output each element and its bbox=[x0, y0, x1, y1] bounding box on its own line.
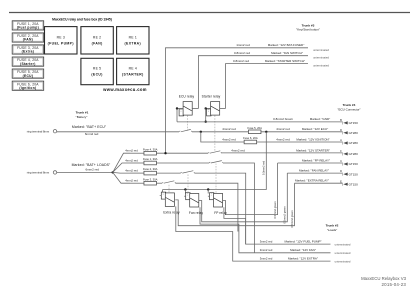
svg-text:Marked: "STARTER SWITCH": Marked: "STARTER SWITCH" bbox=[265, 59, 305, 63]
svg-text:Marked: "12V FUEL PUMP": Marked: "12V FUEL PUMP" bbox=[284, 240, 321, 244]
wire into fuse F4 30A bbox=[130, 152, 144, 154]
relay module RE 4 (STARTER) bbox=[117, 58, 149, 84]
wire ECU relay coil to GND rail bbox=[176, 109, 178, 122]
svg-text:RE 2: RE 2 bbox=[93, 36, 101, 40]
svg-text:(FUEL PUMP): (FUEL PUMP) bbox=[48, 41, 74, 45]
svg-text:E: E bbox=[340, 179, 342, 183]
fuse box F5 (ECU) bbox=[12, 69, 44, 78]
svg-text:Marked: "BAT+ ECU": Marked: "BAT+ ECU" bbox=[72, 125, 107, 129]
fuse F3 30A bbox=[143, 177, 158, 185]
wire ECU relay right pin bbox=[192, 108, 198, 110]
wire FP feed after fuse1 bbox=[157, 162, 210, 164]
svg-text:RE 3: RE 3 bbox=[57, 36, 65, 40]
contact switch of FP relay bbox=[209, 161, 223, 163]
fuse box F2 (FAN) bbox=[12, 33, 44, 42]
svg-text:4mm2 red: 4mm2 red bbox=[222, 127, 236, 131]
svg-text:4mm2 red: 4mm2 red bbox=[125, 158, 138, 162]
svg-text:unterminated: unterminated bbox=[335, 242, 351, 246]
svg-text:4mm2 red: 4mm2 red bbox=[222, 137, 236, 141]
svg-text:Fuse 1, 30A: Fuse 1, 30A bbox=[143, 157, 158, 161]
svg-text:GT150: GT150 bbox=[349, 182, 359, 186]
svg-text:Marked: "IGN SWITCH": Marked: "IGN SWITCH" bbox=[271, 51, 303, 55]
contact switch of Extra relay bbox=[162, 181, 176, 183]
fuse F6 20A bbox=[243, 136, 258, 144]
svg-text:(Ignition): (Ignition) bbox=[19, 86, 36, 90]
svg-text:D: D bbox=[340, 169, 342, 173]
wire into fuse F1 30A bbox=[130, 162, 144, 164]
svg-text:GT150: GT150 bbox=[349, 162, 359, 166]
svg-text:Marked: "12V IGNITION": Marked: "12V IGNITION" bbox=[296, 137, 329, 141]
wire Extra relay control hook bbox=[175, 183, 294, 226]
wire starter relay right pin bbox=[220, 108, 226, 110]
dashed link Extra relay to contact bbox=[168, 184, 170, 192]
wire ECU relay left pin bbox=[177, 108, 183, 110]
svg-text:0.5mm2 green: 0.5mm2 green bbox=[290, 210, 294, 228]
wire FAN feed after fuse2 bbox=[157, 172, 181, 174]
wire branch to fuse2 row bbox=[113, 171, 130, 174]
wire Fan relay output to 12V FAN bbox=[200, 207, 331, 253]
dashed link Fan relay to contact bbox=[187, 174, 189, 193]
contact switch of Fan relay bbox=[181, 171, 195, 173]
fuse box F3 (Extra) bbox=[12, 45, 44, 54]
svg-text:A: A bbox=[340, 138, 342, 142]
fuse F2 30A bbox=[143, 167, 158, 175]
wire 12V ECU through fuse to connector bbox=[192, 131, 342, 133]
svg-text:4mm2 red: 4mm2 red bbox=[231, 148, 245, 152]
svg-text:4mm2 red: 4mm2 red bbox=[125, 169, 138, 173]
junction coil bus FP bbox=[207, 188, 209, 190]
svg-text:(ECU): (ECU) bbox=[23, 74, 34, 78]
svg-text:3mm2 red: 3mm2 red bbox=[260, 240, 273, 244]
connector pin E GT150 (EXTRA RELAY) bbox=[340, 179, 358, 186]
connector pin D GT150 (FAN RELAY) bbox=[340, 169, 358, 176]
svg-text:ECU relay: ECU relay bbox=[179, 94, 195, 98]
svg-text:1mm2 red: 1mm2 red bbox=[236, 43, 250, 47]
svg-text:Marked: "FP RELAY": Marked: "FP RELAY" bbox=[302, 158, 330, 162]
wire into fuse F3 30A bbox=[130, 182, 144, 184]
wire GND rail to connector bbox=[177, 121, 342, 123]
svg-text:ring terminal 8mm: ring terminal 8mm bbox=[27, 129, 50, 133]
svg-text:Fan relay: Fan relay bbox=[189, 211, 203, 215]
wire branch to fuse4 row bbox=[113, 153, 130, 172]
svg-text:Marked: "FAN RELAY": Marked: "FAN RELAY" bbox=[299, 168, 329, 172]
svg-text:D: D bbox=[340, 128, 342, 132]
relay K1 ECU relay symbol bbox=[179, 102, 192, 116]
junction ECU relay left pin bbox=[176, 107, 178, 109]
svg-text:4mm2 red: 4mm2 red bbox=[276, 137, 290, 141]
wire FP RELAY coil control row bbox=[278, 162, 343, 164]
svg-text:3mm2 red: 3mm2 red bbox=[260, 248, 273, 252]
fuse F4 30A bbox=[143, 147, 158, 155]
svg-text:C: C bbox=[340, 159, 342, 163]
ring terminal lug (BAT+ LOADS) bbox=[53, 171, 56, 174]
svg-text:(FAN): (FAN) bbox=[23, 38, 33, 42]
wire coil bus drop to Extra relay bbox=[162, 190, 164, 193]
fuse box F6 (Ignition) bbox=[12, 81, 44, 90]
wire Extra contact output down bbox=[176, 183, 238, 231]
svg-text:"Battery": "Battery" bbox=[76, 115, 88, 119]
svg-text:0.5mm2 red: 0.5mm2 red bbox=[261, 160, 265, 175]
svg-text:"Loads": "Loads" bbox=[327, 228, 337, 232]
svg-text:Marked: "12V EXTRA": Marked: "12V EXTRA" bbox=[288, 257, 318, 261]
wire coil bus drop to FP relay bbox=[207, 190, 209, 194]
junction GND rail bbox=[205, 121, 207, 123]
svg-text:0.5mm2 green: 0.5mm2 green bbox=[273, 201, 277, 219]
svg-text:"Key/Start button": "Key/Start button" bbox=[296, 28, 320, 32]
svg-text:Marked: "EXTRA RELAY": Marked: "EXTRA RELAY" bbox=[295, 179, 329, 183]
relay K3 Extra relay symbol bbox=[160, 192, 175, 206]
dashed link ECU relay to contact bbox=[187, 115, 189, 130]
wire STARTER SWITCH from starter relay up and right bbox=[226, 64, 309, 109]
svg-text:Fuse 5, 20A: Fuse 5, 20A bbox=[247, 126, 262, 130]
svg-text:6mm2 red: 6mm2 red bbox=[85, 132, 99, 136]
svg-text:(ECU): (ECU) bbox=[91, 73, 102, 77]
wire starter relay left pin bbox=[206, 108, 211, 110]
svg-text:B: B bbox=[340, 118, 342, 122]
ring terminal lug (BAT+ ECU) bbox=[53, 130, 56, 133]
wire coil feed bus from 12V ECU bbox=[163, 132, 267, 190]
wire branch to fuse1 row bbox=[113, 163, 130, 172]
connector pin A GT280 (12V IGNITION) bbox=[340, 138, 358, 145]
wire 12V BAT-FUSED from bus up and right bbox=[166, 48, 309, 153]
svg-text:Fuse 2, 30A: Fuse 2, 30A bbox=[143, 167, 158, 171]
svg-text:Marked: "12V FAN": Marked: "12V FAN" bbox=[290, 248, 316, 252]
junction BAT+ LOADS fan-out bbox=[112, 171, 114, 173]
svg-text:RE 4: RE 4 bbox=[129, 67, 137, 71]
contact switch of starter relay bbox=[208, 151, 222, 153]
svg-text:Extra relay: Extra relay bbox=[163, 210, 180, 214]
svg-text:0.8mm2 brown: 0.8mm2 brown bbox=[273, 117, 293, 121]
svg-text:4mm2 red: 4mm2 red bbox=[276, 127, 290, 131]
svg-text:GT280: GT280 bbox=[349, 131, 359, 135]
junction coil bus Fan bbox=[184, 188, 186, 190]
relay module RE 1 (EXTRA) bbox=[117, 27, 149, 54]
svg-text:(STARTER): (STARTER) bbox=[122, 73, 144, 77]
svg-text:(Starter): (Starter) bbox=[20, 62, 36, 66]
wire FAN RELAY coil control row bbox=[287, 172, 342, 174]
svg-text:Starter relay: Starter relay bbox=[202, 94, 221, 98]
svg-text:4mm2 red: 4mm2 red bbox=[125, 179, 138, 183]
wire 12V IGNITION branch to connector bbox=[201, 132, 343, 142]
svg-text:(FAN): (FAN) bbox=[92, 41, 103, 45]
fuse F1 30A bbox=[143, 157, 158, 165]
wire 12V STARTER to connector bbox=[222, 152, 343, 154]
svg-text:Fuse 6, 20A: Fuse 6, 20A bbox=[243, 136, 258, 140]
svg-text:RE 5: RE 5 bbox=[93, 67, 101, 71]
svg-text:ring terminal 8mm: ring terminal 8mm bbox=[27, 171, 50, 175]
svg-text:FP relay: FP relay bbox=[214, 211, 227, 215]
svg-text:GT150: GT150 bbox=[349, 121, 359, 125]
svg-text:Fuse 4, 30A: Fuse 4, 30A bbox=[143, 147, 158, 151]
svg-text:www.maxxecu.com: www.maxxecu.com bbox=[102, 87, 147, 92]
svg-text:(EXTRA): (EXTRA) bbox=[125, 41, 142, 45]
svg-text:0.8mm2 red: 0.8mm2 red bbox=[233, 59, 249, 63]
svg-text:unterminated: unterminated bbox=[335, 259, 351, 263]
contact switch of ECU relay bbox=[179, 129, 192, 131]
svg-text:GT280: GT280 bbox=[349, 152, 359, 156]
wire Fan relay control hook bbox=[199, 173, 287, 222]
svg-text:Marked: "12V ECU": Marked: "12V ECU" bbox=[302, 127, 328, 131]
svg-text:Marked: "12V STARTER": Marked: "12V STARTER" bbox=[296, 148, 330, 152]
svg-text:Marked: "12V BAT-FUSED": Marked: "12V BAT-FUSED" bbox=[268, 43, 305, 47]
svg-text:unterminated: unterminated bbox=[313, 56, 329, 60]
svg-text:3mm2 red: 3mm2 red bbox=[260, 257, 273, 261]
svg-text:"ECU Connector": "ECU Connector" bbox=[337, 107, 360, 111]
connector pin C GT150 (FP RELAY) bbox=[340, 159, 358, 166]
dashed link FP relay to contact bbox=[215, 164, 217, 193]
svg-text:4mm2 red: 4mm2 red bbox=[125, 149, 138, 153]
wire EXTRA RELAY coil control row bbox=[295, 182, 343, 184]
junction 12V BAT-FUSED tap bbox=[164, 152, 166, 154]
svg-text:GT150: GT150 bbox=[349, 172, 359, 176]
page top separator line bbox=[9, 12, 410, 14]
wire row tail via x=254.4 down to FAN row bbox=[223, 163, 254, 253]
wire starter feed after fuse4 bbox=[157, 152, 209, 154]
connector pin B GT150 (GND) bbox=[340, 118, 358, 125]
wire branch to fuse3 row bbox=[113, 172, 130, 183]
junction starter relay left pin bbox=[205, 107, 207, 109]
relay K4 Fan relay symbol bbox=[184, 193, 199, 207]
wire coil bus drop to Fan relay bbox=[184, 190, 186, 194]
svg-text:0.8mm2 red: 0.8mm2 red bbox=[234, 51, 250, 55]
wire BAT+ ECU from ring terminal bbox=[57, 131, 180, 133]
relay module RE 3 (FUEL PUMP) bbox=[45, 27, 78, 54]
svg-text:RE 1: RE 1 bbox=[129, 36, 137, 40]
wire Extra relay output to 12V EXTRA bbox=[176, 206, 331, 261]
wire into fuse F2 30A bbox=[130, 172, 144, 174]
wire FP relay output to 12V FUEL PUMP bbox=[224, 207, 331, 244]
svg-text:0.5mm2 green: 0.5mm2 green bbox=[283, 206, 287, 224]
wire starter relay coil to GND rail bbox=[205, 109, 207, 122]
svg-text:unterminated: unterminated bbox=[335, 251, 351, 255]
wire BAT+ LOADS bbox=[57, 171, 113, 173]
svg-text:unterminated: unterminated bbox=[313, 48, 329, 52]
svg-text:Marked: "BAT+ LOADS": Marked: "BAT+ LOADS" bbox=[72, 163, 111, 167]
connector pin D GT280 (12V ECU) bbox=[340, 128, 358, 135]
junction coil feed branch bbox=[265, 131, 267, 133]
connector pin F GT280 (12V STARTER) bbox=[340, 149, 358, 156]
svg-text:(Extra): (Extra) bbox=[22, 50, 35, 54]
svg-text:MaxxECU Relaybox V3: MaxxECU Relaybox V3 bbox=[361, 276, 407, 281]
svg-text:unterminated: unterminated bbox=[313, 64, 329, 68]
svg-text:Marked: "GND": Marked: "GND" bbox=[310, 117, 330, 121]
wire IGN SWITCH from ECU relay up and right bbox=[198, 56, 308, 109]
svg-text:2015-04-23: 2015-04-23 bbox=[382, 282, 407, 287]
fuse box F4 (Starter) bbox=[12, 57, 44, 66]
relay K2 Starter relay symbol bbox=[207, 102, 220, 116]
svg-text:(Fuel pump): (Fuel pump) bbox=[17, 26, 39, 30]
wire row tail via x=245.7 down to FUEL PUMP row bbox=[195, 173, 246, 244]
svg-text:MaxxECU relay and fuse box (ID: MaxxECU relay and fuse box (ID 1945) bbox=[52, 17, 112, 21]
wire FP relay control hook bbox=[223, 163, 278, 215]
fuse F5 20A bbox=[247, 126, 262, 134]
junction ignition branch bbox=[200, 131, 202, 133]
relay module RE 5 (ECU) bbox=[81, 58, 113, 84]
relay K5 FP relay symbol bbox=[208, 193, 223, 207]
wire EXTRA feed after fuse3 bbox=[157, 182, 163, 184]
svg-text:Fuse 3, 30A: Fuse 3, 30A bbox=[143, 177, 158, 181]
svg-text:GT280: GT280 bbox=[349, 141, 359, 145]
dashed link starter relay to contact bbox=[214, 115, 216, 151]
svg-text:6mm2 red: 6mm2 red bbox=[85, 167, 99, 171]
fuse box F1 (Fuel pump) bbox=[12, 21, 44, 30]
relay module RE 2 (FAN) bbox=[81, 27, 113, 54]
